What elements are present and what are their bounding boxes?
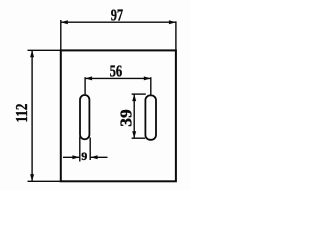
svg-text:9: 9 [81,149,87,163]
svg-text:56: 56 [110,62,123,81]
dim 56 extension line left (to left slot top) [84,77,86,94]
dim 112 dimension line [31,50,33,181]
dim 97 extension line right [175,21,177,50]
dim 56 arrowhead left [85,76,92,80]
dim 39 arrowhead top [132,94,136,101]
dim 9 extension line right (from left slot right edge) [89,138,91,161]
dim 56 dimension line [85,77,151,79]
dim 39 dimension line [133,94,135,138]
dim 39 extension line bottom (to right slot) [132,137,146,139]
dim 9 extension line left (from left slot left edge) [79,137,81,162]
left slot [80,95,89,139]
dim 112 arrowhead top [30,50,34,57]
dim 9 arrow left (pointing right at slot) [63,156,79,158]
dim 112 extension line bottom [28,180,61,182]
dim 97 arrowhead right [169,20,176,24]
dim 112 arrowhead bottom [30,174,34,181]
dim 56 arrowhead right [144,76,151,80]
svg-text:39: 39 [116,109,135,127]
dim 97 dimension line [61,21,176,23]
dim 56 extension line right (to right slot top) [150,77,152,95]
dim 39 arrowhead bottom [132,131,136,138]
svg-text:97: 97 [111,6,124,25]
plate outline [61,50,176,181]
dim 97 arrowhead left [61,20,68,24]
right slot [145,95,156,139]
dim 112 extension line top [28,49,61,51]
dim 97 extension line left [60,20,62,50]
paper background [0,0,190,190]
dim 39 extension line top (to right slot) [132,93,146,95]
svg-text:112: 112 [12,104,31,123]
dim 9 arrow right (pointing left at slot) [91,156,108,158]
